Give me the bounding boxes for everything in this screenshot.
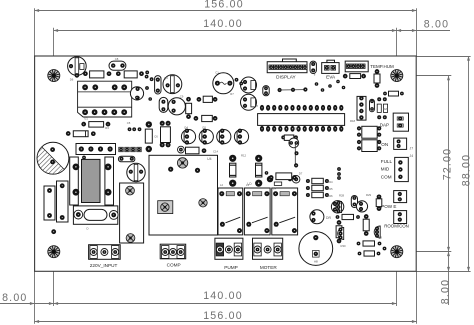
svg-text:R20: R20 [383, 107, 389, 111]
svg-text:R16: R16 [293, 127, 299, 131]
svg-text:C5: C5 [127, 121, 131, 125]
svg-text:220V_INPUT: 220V_INPUT [90, 263, 118, 268]
svg-text:POW E: POW E [381, 204, 396, 209]
svg-text:Q5: Q5 [202, 126, 206, 130]
svg-text:8.00: 8.00 [440, 279, 452, 304]
svg-text:R12: R12 [241, 154, 247, 158]
svg-text:D7: D7 [299, 172, 303, 176]
svg-text:R29: R29 [366, 193, 372, 197]
svg-text:88.00: 88.00 [461, 154, 473, 187]
svg-text:140.00: 140.00 [203, 18, 243, 30]
svg-text:D: D [86, 227, 88, 231]
svg-text:FULL: FULL [381, 159, 393, 164]
svg-text:MOTER: MOTER [260, 265, 278, 270]
svg-text:R25: R25 [327, 187, 333, 191]
svg-text:DR: DR [326, 216, 331, 220]
svg-text:C14: C14 [213, 150, 219, 154]
svg-text:U4: U4 [207, 157, 211, 161]
svg-text:D6: D6 [70, 78, 74, 82]
svg-text:R7: R7 [230, 92, 234, 96]
svg-text:ON: ON [381, 142, 388, 147]
svg-text:PUMP: PUMP [224, 265, 238, 270]
svg-text:Q2: Q2 [164, 76, 168, 80]
svg-text:COMP: COMP [167, 263, 181, 268]
svg-text:L4: L4 [273, 187, 277, 191]
svg-text:R30: R30 [340, 244, 346, 248]
svg-text:140.00: 140.00 [203, 290, 243, 302]
svg-text:Q8: Q8 [378, 236, 382, 240]
svg-text:R26: R26 [327, 194, 333, 198]
svg-text:R28: R28 [339, 194, 345, 198]
svg-text:156.00: 156.00 [203, 310, 243, 322]
svg-text:R24: R24 [327, 180, 333, 184]
svg-text:L3: L3 [246, 183, 250, 187]
svg-text:8.00: 8.00 [424, 18, 449, 30]
svg-text:MID: MID [381, 167, 390, 172]
svg-text:L2: L2 [220, 183, 224, 187]
svg-text:TEMP.HUM: TEMP.HUM [370, 64, 394, 69]
svg-text:ROOM/CON: ROOM/CON [384, 224, 409, 229]
svg-text:U1: U1 [84, 117, 88, 121]
svg-text:DAP: DAP [380, 123, 389, 128]
svg-text:J4: J4 [410, 154, 414, 158]
svg-text:EVA: EVA [326, 74, 336, 79]
svg-text:J7: J7 [410, 147, 414, 151]
svg-text:A8: A8 [314, 260, 318, 264]
svg-text:C1: C1 [215, 71, 219, 75]
svg-text:DISPLAY: DISPLAY [276, 74, 296, 79]
svg-text:156.00: 156.00 [204, 0, 244, 11]
svg-text:Q4: Q4 [184, 126, 188, 130]
svg-text:R3: R3 [105, 126, 109, 130]
svg-text:8.00: 8.00 [2, 292, 27, 304]
svg-text:R18: R18 [350, 119, 356, 123]
svg-text:72.00: 72.00 [441, 148, 453, 181]
svg-text:C8: C8 [115, 57, 119, 61]
svg-text:C9: C9 [180, 95, 184, 99]
svg-text:C6: C6 [154, 135, 158, 139]
svg-text:COM: COM [381, 174, 392, 179]
